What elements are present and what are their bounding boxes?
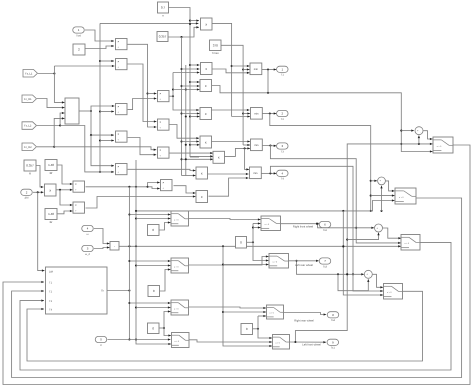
svg-text:ω_d: ω_d bbox=[85, 253, 90, 256]
svg-text:-: - bbox=[369, 275, 370, 278]
svg-text:min: min bbox=[254, 68, 259, 71]
svg-text:T3: T3 bbox=[281, 150, 285, 153]
svg-text:x: x bbox=[205, 84, 207, 88]
svg-text:T4: T4 bbox=[281, 178, 285, 181]
svg-text:T2: T2 bbox=[281, 118, 285, 121]
svg-text:Fz_R2: Fz_R2 bbox=[24, 146, 32, 149]
svg-text:x: x bbox=[205, 67, 207, 71]
svg-text:x: x bbox=[205, 22, 207, 26]
svg-text:T1: T1 bbox=[281, 74, 285, 77]
svg-text:ΔM: ΔM bbox=[25, 197, 29, 200]
svg-text:Ts3: Ts3 bbox=[323, 265, 328, 268]
svg-text:Right rear wheel: Right rear wheel bbox=[294, 319, 314, 322]
svg-text:x: x bbox=[201, 195, 203, 199]
svg-text:θ: θ bbox=[100, 344, 102, 347]
svg-text:n: n bbox=[162, 14, 164, 18]
svg-text:0.357: 0.357 bbox=[159, 35, 167, 39]
svg-text:x: x bbox=[49, 188, 51, 192]
svg-text:0.7: 0.7 bbox=[161, 6, 166, 10]
svg-text:1.48: 1.48 bbox=[48, 212, 54, 216]
svg-text:-: - bbox=[379, 229, 380, 232]
svg-text:-: - bbox=[420, 131, 421, 134]
svg-text:Ts4: Ts4 bbox=[331, 319, 336, 322]
svg-text:370: 370 bbox=[213, 43, 218, 47]
svg-text:Fz_L2: Fz_L2 bbox=[24, 125, 32, 128]
svg-text:Ts2: Ts2 bbox=[323, 229, 328, 232]
svg-text:ω: ω bbox=[86, 233, 88, 236]
svg-text:Twd: Twd bbox=[76, 34, 81, 37]
svg-text:x: x bbox=[205, 140, 207, 144]
svg-text:1.48: 1.48 bbox=[48, 163, 54, 167]
svg-text:x: x bbox=[218, 156, 220, 160]
svg-text:Tmax: Tmax bbox=[212, 51, 220, 55]
svg-text:Fz_R1: Fz_R1 bbox=[24, 98, 32, 101]
svg-text:R: R bbox=[29, 172, 31, 176]
svg-text:Left front wheel: Left front wheel bbox=[302, 344, 321, 347]
svg-text:Bf: Bf bbox=[50, 171, 53, 175]
svg-text:-: - bbox=[382, 182, 383, 185]
svg-text:x: x bbox=[205, 112, 207, 116]
svg-text:Fx_L1: Fx_L1 bbox=[25, 72, 33, 75]
svg-text:-: - bbox=[114, 244, 115, 248]
svg-text:Ts1: Ts1 bbox=[331, 347, 336, 350]
svg-text:min: min bbox=[254, 113, 259, 116]
svg-text:min: min bbox=[253, 172, 258, 175]
svg-text:Left rear wheel: Left rear wheel bbox=[295, 264, 313, 267]
svg-text:min: min bbox=[254, 144, 259, 147]
svg-text:Br: Br bbox=[50, 220, 53, 224]
svg-text:ΔM: ΔM bbox=[49, 270, 53, 273]
svg-text:Right front wheel: Right front wheel bbox=[293, 226, 314, 229]
svg-text:x: x bbox=[201, 171, 203, 175]
svg-text:0.357: 0.357 bbox=[26, 164, 34, 168]
